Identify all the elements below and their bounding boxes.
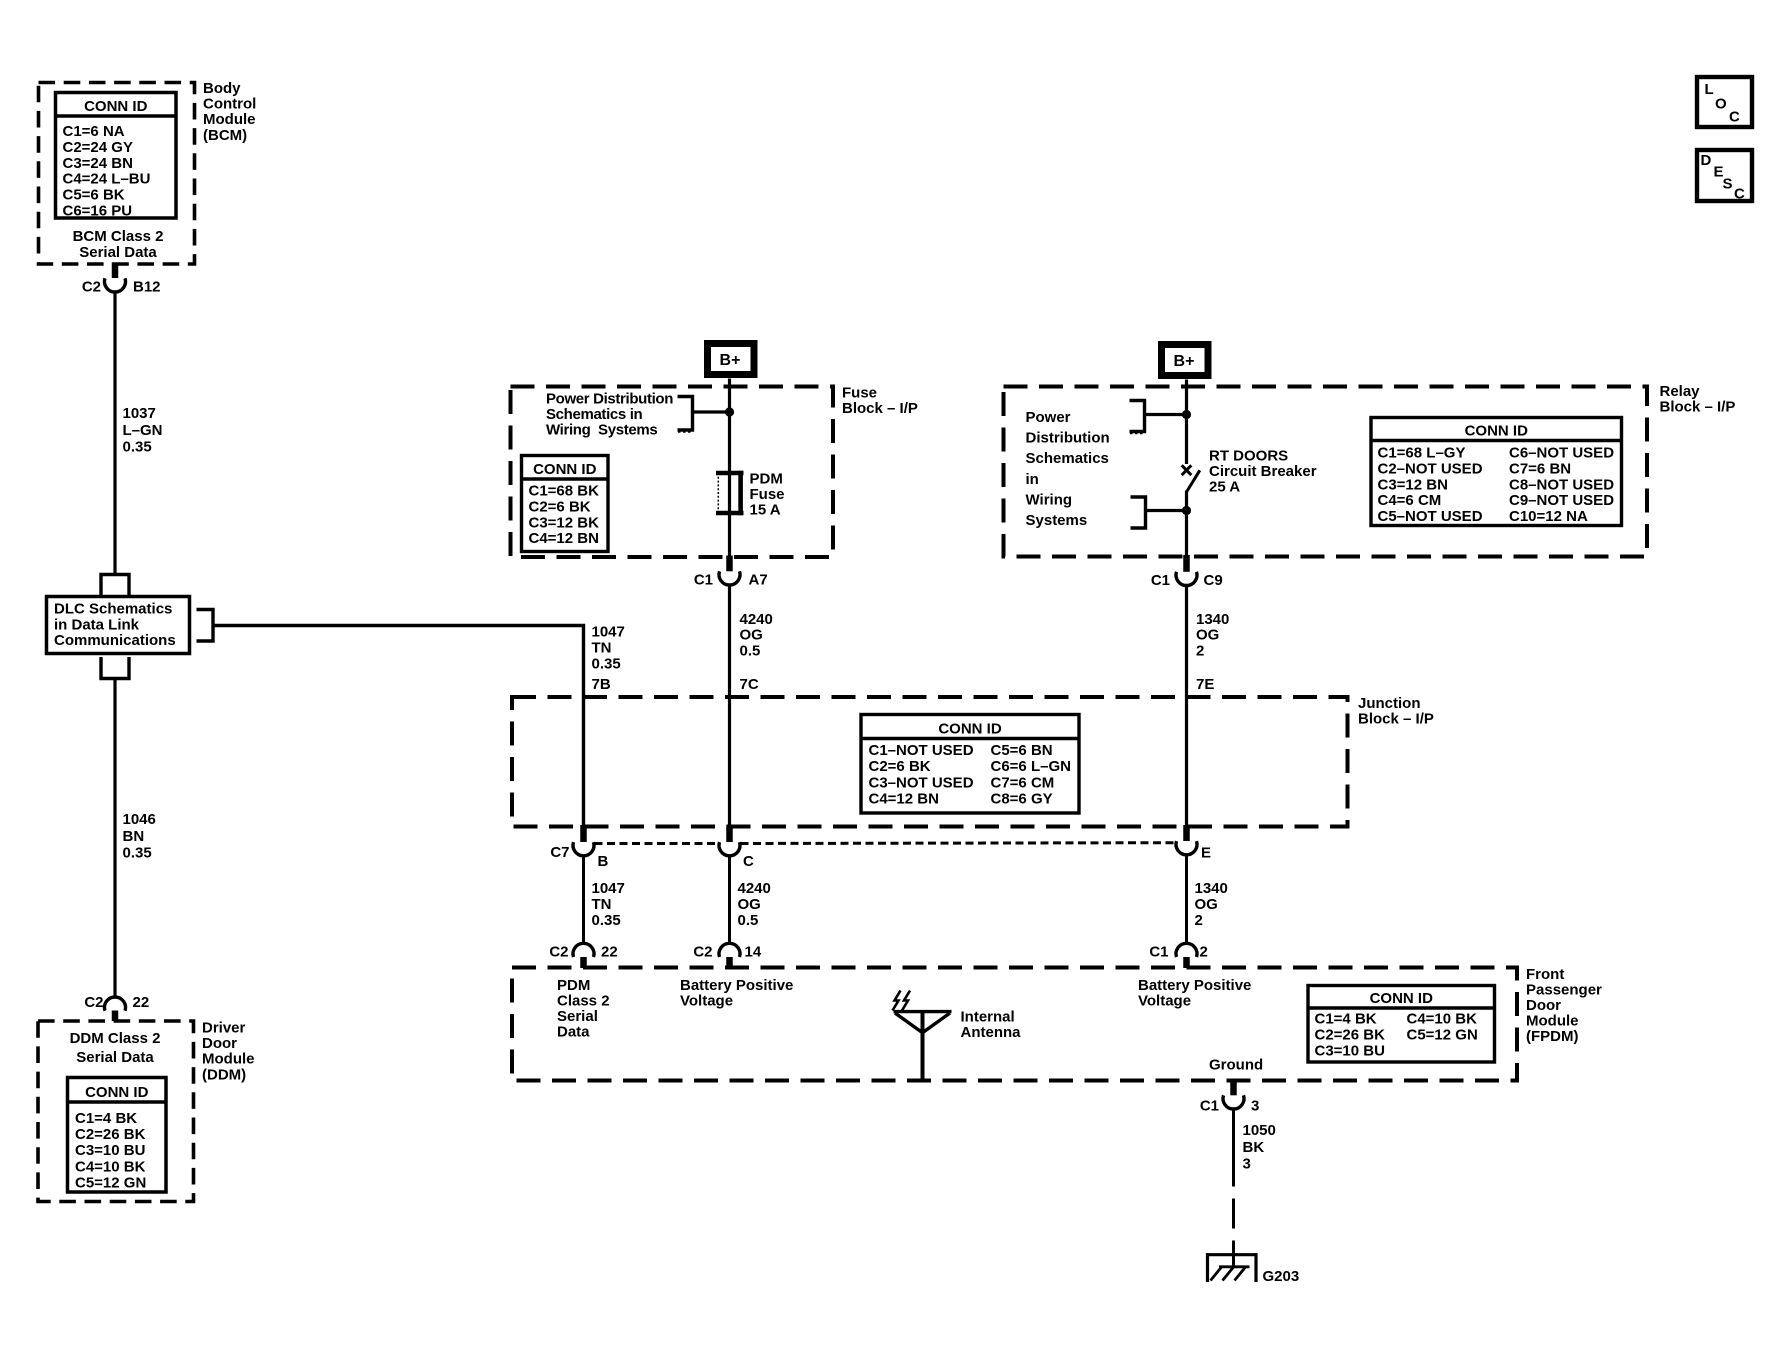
svg-text:Junction: Junction — [1358, 695, 1421, 712]
internal antenna symbol — [894, 1010, 952, 1013]
box: DLC Schematics in Data Link Communications — [47, 597, 190, 654]
svg-text:C1=6 NA: C1=6 NA — [63, 123, 125, 140]
svg-text:C9–NOT USED: C9–NOT USED — [1509, 492, 1614, 509]
svg-text:BK: BK — [1243, 1139, 1265, 1156]
svg-text:L: L — [1705, 81, 1714, 98]
svg-text:O: O — [1715, 96, 1727, 113]
wire 1047 lower — [582, 856, 585, 944]
module box: Front Passenger Door Module (FPDM) — [512, 968, 1517, 1081]
svg-text:C: C — [1729, 109, 1740, 126]
svg-text:4240: 4240 — [738, 880, 771, 897]
svg-text:C5=6 BK: C5=6 BK — [63, 187, 125, 204]
table: FPDM CONN ID — [1308, 986, 1495, 1063]
svg-text:0.35: 0.35 — [123, 439, 152, 456]
svg-text:C2: C2 — [693, 944, 712, 961]
svg-text:C2–NOT USED: C2–NOT USED — [1378, 460, 1483, 477]
svg-text:C1: C1 — [1200, 1098, 1219, 1115]
junction dot (fuse block) — [725, 407, 734, 416]
svg-text:1050: 1050 — [1243, 1122, 1276, 1139]
svg-text:C1=68 L–GY: C1=68 L–GY — [1378, 445, 1466, 462]
svg-text:2: 2 — [1195, 912, 1203, 929]
svg-text:PDM: PDM — [750, 471, 783, 488]
svg-text:3: 3 — [1243, 1156, 1251, 1173]
svg-text:C4=10 BK: C4=10 BK — [1407, 1011, 1478, 1028]
svg-text:Power Distribution: Power Distribution — [546, 391, 673, 408]
svg-text:C6=16 PU: C6=16 PU — [63, 203, 133, 220]
svg-text:B12: B12 — [133, 279, 161, 296]
svg-text:Distribution: Distribution — [1026, 430, 1110, 447]
junction dot lower (relay block) — [1182, 506, 1191, 515]
svg-text:C1: C1 — [1151, 572, 1170, 589]
svg-text:TN: TN — [592, 640, 612, 657]
svg-text:Relay: Relay — [1660, 383, 1701, 400]
svg-text:7B: 7B — [592, 676, 611, 693]
svg-text:E: E — [1201, 845, 1211, 862]
svg-text:Serial Data: Serial Data — [79, 244, 157, 261]
svg-text:C7=6 BN: C7=6 BN — [1509, 460, 1571, 477]
svg-text:Block – I/P: Block – I/P — [1358, 711, 1434, 728]
svg-text:PDM: PDM — [557, 977, 590, 994]
block box: Junction Block - I/P — [512, 697, 1348, 827]
svg-text:Circuit Breaker: Circuit Breaker — [1209, 463, 1317, 480]
svg-text:C5=12 GN: C5=12 GN — [75, 1174, 146, 1191]
svg-text:C4=10 BK: C4=10 BK — [75, 1158, 146, 1175]
svg-text:in Data Link: in Data Link — [54, 616, 140, 633]
svg-text:C2=26 BK: C2=26 BK — [1315, 1027, 1386, 1044]
table: fuse block CONN ID — [522, 456, 609, 552]
wire upper bracket to bus (relay block) — [1145, 413, 1187, 416]
LOC reference box — [1697, 77, 1752, 127]
connector C (junction block) — [726, 825, 733, 842]
svg-text:Schematics: Schematics — [1026, 450, 1109, 467]
svg-text:0.5: 0.5 — [738, 912, 759, 929]
svg-text:C1: C1 — [1149, 944, 1168, 961]
svg-text:C9: C9 — [1204, 572, 1223, 589]
svg-text:Data: Data — [557, 1024, 590, 1041]
svg-text:CONN ID: CONN ID — [85, 1084, 149, 1101]
svg-text:Fuse: Fuse — [750, 486, 785, 503]
wire breaker to block edge — [1185, 491, 1188, 557]
svg-text:C1=4 BK: C1=4 BK — [1315, 1011, 1377, 1028]
svg-text:C3=10 BU: C3=10 BU — [1315, 1043, 1385, 1060]
svg-text:C2=6 BK: C2=6 BK — [869, 758, 931, 775]
svg-text:CONN ID: CONN ID — [84, 98, 148, 115]
svg-text:BCM Class 2: BCM Class 2 — [73, 228, 164, 245]
bracket below DLC box — [101, 657, 129, 679]
svg-text:C5–NOT USED: C5–NOT USED — [1378, 508, 1483, 525]
svg-text:Voltage: Voltage — [1138, 993, 1191, 1010]
connector C1 / A7 (fuse block output) — [726, 556, 733, 572]
svg-text:C5=6 BN: C5=6 BN — [991, 742, 1053, 759]
svg-text:OG: OG — [740, 627, 763, 644]
svg-text:C2=26 BK: C2=26 BK — [75, 1126, 146, 1143]
wire 1037 (BCM to DLC) — [113, 292, 116, 574]
ground symbol G203 — [1206, 1253, 1258, 1256]
svg-text:Control: Control — [203, 96, 256, 113]
svg-text:C: C — [743, 853, 754, 870]
wire 1050 (solid) — [1232, 1109, 1235, 1187]
connector C1 / 3 (FPDM ground output) — [1230, 1079, 1237, 1095]
table: BCM CONN ID — [56, 93, 177, 219]
svg-text:C3=10 BU: C3=10 BU — [75, 1142, 145, 1159]
B+ terminal (fuse block) — [708, 344, 755, 375]
svg-text:Systems: Systems — [1026, 512, 1088, 529]
svg-text:Communications: Communications — [54, 632, 176, 649]
svg-text:Ground: Ground — [1209, 1057, 1263, 1074]
wire 1050 (dashed segment) — [1232, 1199, 1235, 1229]
connector C2 / 14 (FPDM input) — [719, 943, 740, 957]
svg-text:C4=24 L–BU: C4=24 L–BU — [63, 171, 151, 188]
svg-text:C6–NOT USED: C6–NOT USED — [1509, 445, 1614, 462]
svg-text:Module: Module — [202, 1051, 255, 1068]
svg-text:OG: OG — [1195, 896, 1218, 913]
svg-text:Body: Body — [203, 80, 241, 97]
connector C2 / 22 (FPDM input) — [573, 943, 594, 957]
svg-text:A7: A7 — [749, 572, 768, 589]
svg-text:22: 22 — [601, 944, 618, 961]
svg-text:4240: 4240 — [740, 611, 773, 628]
table: relay block CONN ID — [1371, 418, 1622, 526]
svg-text:1340: 1340 — [1195, 880, 1228, 897]
svg-text:3: 3 — [1251, 1098, 1259, 1115]
wire 1050 (to ground) — [1232, 1241, 1235, 1267]
table: DDM CONN ID — [68, 1078, 167, 1193]
connector C1 / C9 (relay block output) — [1183, 555, 1190, 572]
bracket upper (relay block schematic ref) — [1130, 401, 1145, 432]
block box: Fuse Block - I/P — [511, 387, 834, 558]
svg-text:1340: 1340 — [1196, 611, 1229, 628]
svg-text:L–GN: L–GN — [123, 422, 163, 439]
svg-text:1037: 1037 — [123, 405, 156, 422]
svg-text:C4=12 BN: C4=12 BN — [869, 791, 939, 808]
svg-text:C2=6 BK: C2=6 BK — [529, 498, 591, 515]
table: junction block CONN ID — [861, 715, 1079, 814]
wire 1046 (DLC to DDM) — [113, 679, 116, 998]
svg-text:Block – I/P: Block – I/P — [842, 400, 918, 417]
svg-text:1046: 1046 — [123, 811, 156, 828]
svg-text:Internal: Internal — [961, 1009, 1015, 1026]
svg-text:in: in — [1026, 471, 1039, 488]
svg-text:S: S — [1723, 176, 1733, 193]
svg-text:DDM Class 2: DDM Class 2 — [70, 1030, 161, 1047]
svg-text:B+: B+ — [1174, 353, 1195, 370]
svg-text:C2: C2 — [549, 944, 568, 961]
connector C7 / B (junction block) — [580, 825, 587, 842]
svg-text:Battery Positive: Battery Positive — [1138, 977, 1251, 994]
svg-text:Battery Positive: Battery Positive — [680, 977, 793, 994]
svg-text:Wiring Systems: Wiring Systems — [546, 422, 657, 439]
svg-text:0.35: 0.35 — [592, 912, 621, 929]
svg-text:C8–NOT USED: C8–NOT USED — [1509, 476, 1614, 493]
svg-text:(BCM): (BCM) — [203, 127, 247, 144]
block box: Relay Block - I/P — [1004, 387, 1648, 557]
DESC reference box — [1697, 150, 1752, 201]
svg-text:B: B — [598, 853, 609, 870]
svg-text:CONN ID: CONN ID — [938, 721, 1002, 738]
svg-text:Passenger: Passenger — [1526, 982, 1602, 999]
svg-text:B+: B+ — [720, 352, 741, 369]
svg-text:Wiring: Wiring — [1026, 491, 1073, 508]
svg-text:BN: BN — [123, 828, 145, 845]
svg-text:CONN ID: CONN ID — [533, 461, 597, 478]
svg-text:C1: C1 — [694, 572, 713, 589]
svg-text:C10=12 NA: C10=12 NA — [1509, 508, 1588, 525]
svg-text:Module: Module — [1526, 1013, 1579, 1030]
svg-text:(FPDM): (FPDM) — [1526, 1028, 1579, 1045]
connector C2 / 22 (DDM input) — [105, 997, 126, 1011]
svg-text:C3=24 BN: C3=24 BN — [63, 155, 133, 172]
svg-text:(DDM): (DDM) — [202, 1066, 246, 1083]
bracket right of DLC box — [197, 610, 214, 642]
svg-text:OG: OG — [738, 896, 761, 913]
svg-text:15 A: 15 A — [750, 502, 781, 519]
circuit breaker RT DOORS 25 A — [1182, 465, 1192, 475]
svg-text:Serial: Serial — [557, 1008, 598, 1025]
wire 4240 lower — [728, 856, 731, 944]
connector C1 / 2 (FPDM input) — [1176, 943, 1197, 957]
svg-text:Power: Power — [1026, 409, 1071, 426]
svg-text:Block – I/P: Block – I/P — [1660, 399, 1736, 416]
svg-text:CONN ID: CONN ID — [1465, 423, 1529, 440]
svg-text:RT DOORS: RT DOORS — [1209, 448, 1288, 465]
svg-text:C1=4 BK: C1=4 BK — [75, 1110, 137, 1127]
svg-text:Front: Front — [1526, 966, 1564, 983]
svg-text:DLC Schematics: DLC Schematics — [54, 601, 172, 618]
svg-text:C3=12 BN: C3=12 BN — [1378, 476, 1448, 493]
dotted interconnect line (junction block connectors) — [595, 842, 719, 845]
svg-text:G203: G203 — [1263, 1268, 1300, 1285]
svg-text:14: 14 — [745, 944, 762, 961]
svg-text:0.5: 0.5 — [740, 642, 761, 659]
svg-text:Antenna: Antenna — [961, 1024, 1022, 1041]
wire 1047 horizontal (DLC to junction block) — [213, 624, 582, 627]
svg-text:C2: C2 — [84, 994, 103, 1011]
svg-text:C2: C2 — [82, 279, 101, 296]
svg-text:C1=68 BK: C1=68 BK — [529, 483, 600, 500]
B+ terminal (relay block) — [1162, 345, 1209, 376]
svg-text:Door: Door — [202, 1035, 237, 1052]
svg-text:25 A: 25 A — [1209, 479, 1240, 496]
svg-text:C3=12 BK: C3=12 BK — [529, 514, 600, 531]
svg-text:Fuse: Fuse — [842, 385, 877, 402]
svg-text:C3–NOT USED: C3–NOT USED — [869, 774, 974, 791]
svg-text:CONN ID: CONN ID — [1370, 990, 1434, 1007]
svg-text:1047: 1047 — [592, 624, 625, 641]
svg-text:1047: 1047 — [592, 880, 625, 897]
svg-text:7E: 7E — [1196, 676, 1214, 693]
bracket above DLC box — [101, 575, 129, 596]
fuse PDM 15 A — [716, 471, 744, 476]
svg-text:0.35: 0.35 — [123, 845, 152, 862]
connector C2 / B12 (BCM output) — [112, 263, 119, 279]
svg-text:7C: 7C — [740, 676, 759, 693]
wire 1340 (relay to junction block) — [1185, 585, 1188, 827]
svg-text:TN: TN — [592, 896, 612, 913]
svg-text:C: C — [1734, 186, 1745, 203]
svg-text:2: 2 — [1196, 642, 1204, 659]
wire 4240 (fuse to junction block) — [728, 585, 731, 827]
svg-text:0.35: 0.35 — [592, 656, 621, 673]
wire 1340 lower — [1185, 855, 1188, 944]
bracket (fuse block schematic ref) — [678, 397, 693, 431]
wire 1047 vertical (to junction block 7B) — [582, 624, 585, 827]
svg-text:2: 2 — [1200, 944, 1208, 961]
svg-text:Module: Module — [203, 111, 256, 128]
svg-text:C4=6 CM: C4=6 CM — [1378, 492, 1442, 509]
wire bracket to bus (fuse block) — [693, 410, 730, 413]
wire B+ to breaker — [1185, 387, 1188, 465]
svg-text:22: 22 — [133, 994, 150, 1011]
svg-text:Class 2: Class 2 — [557, 993, 610, 1010]
module box: Driver Door Module (DDM) — [38, 1021, 194, 1202]
svg-text:OG: OG — [1196, 627, 1219, 644]
wire B+ bus through fuse — [728, 387, 731, 558]
svg-text:C4=12 BN: C4=12 BN — [529, 530, 599, 547]
connector E (junction block) — [1183, 825, 1190, 841]
svg-text:Serial Data: Serial Data — [76, 1049, 154, 1066]
svg-text:Voltage: Voltage — [680, 993, 733, 1010]
svg-text:C7=6 CM: C7=6 CM — [991, 774, 1055, 791]
svg-text:Driver: Driver — [202, 1020, 246, 1037]
junction dot upper (relay block) — [1182, 410, 1191, 419]
svg-text:Door: Door — [1526, 997, 1561, 1014]
svg-text:Schematics in: Schematics in — [546, 406, 643, 423]
svg-text:C6=6 L–GN: C6=6 L–GN — [991, 758, 1071, 775]
svg-text:C7: C7 — [550, 844, 569, 861]
bracket lower (relay block schematic ref) — [1131, 497, 1146, 528]
svg-text:C2=24 GY: C2=24 GY — [63, 139, 133, 156]
svg-text:C1–NOT USED: C1–NOT USED — [869, 742, 974, 759]
svg-text:D: D — [1701, 152, 1712, 169]
module box: Body Control Module (BCM) — [39, 83, 195, 265]
wire lower bracket to bus (relay block) — [1146, 509, 1187, 512]
svg-text:C5=12 GN: C5=12 GN — [1407, 1027, 1478, 1044]
svg-text:C8=6 GY: C8=6 GY — [991, 791, 1053, 808]
